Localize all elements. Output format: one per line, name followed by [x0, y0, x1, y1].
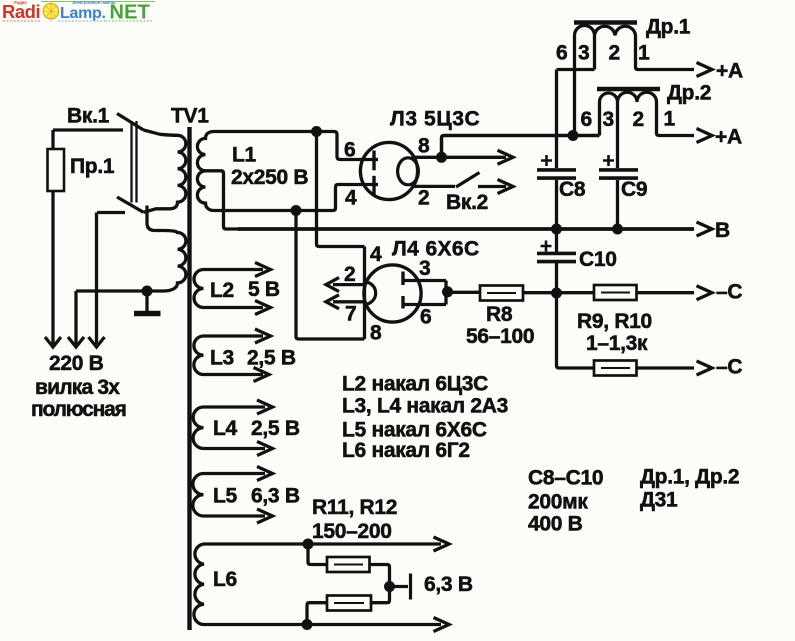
choke Др.2 core bar — [597, 87, 660, 91]
svg-text:–С: –С — [716, 281, 742, 304]
wire tube Л3 pin 8 — [412, 156, 438, 159]
tube Л3 cathode circle — [398, 158, 419, 185]
svg-text:Л3 5Ц3С: Л3 5Ц3С — [390, 108, 480, 131]
heater arrow upper — [326, 278, 363, 292]
wire Л4 output to R8 — [448, 291, 481, 294]
transformer TV1 core — [187, 127, 191, 630]
switch Вк.1 pole 2 blade — [117, 197, 144, 212]
capacitor C10 plus sign — [541, 241, 552, 252]
wire center tap to terminal — [390, 585, 409, 588]
wire node down to R10 — [557, 293, 595, 368]
wire R10 to arrow — [637, 366, 695, 369]
switch Вк.1 pole 2 wire — [97, 211, 125, 214]
svg-text:L6 накал 6Г2: L6 накал 6Г2 — [342, 439, 470, 462]
svg-text:+А: +А — [715, 126, 742, 149]
svg-text:L1: L1 — [232, 144, 257, 167]
wire L1 center tap to B bus — [206, 171, 241, 229]
tube Л4 cathode circle — [365, 282, 376, 304]
svg-text:L2 накал 6Ц3С: L2 накал 6Ц3С — [342, 373, 488, 396]
capacitor C10 bottom lead — [555, 263, 558, 293]
svg-text:Др.2: Др.2 — [667, 82, 711, 105]
svg-text:6,3 В: 6,3 В — [251, 485, 300, 508]
wire plug pin 1 — [51, 191, 54, 344]
winding L6 top arrow — [434, 537, 450, 551]
svg-text:+А: +А — [716, 60, 743, 83]
plug pin 1 arrow — [45, 337, 61, 347]
winding L4 — [193, 407, 265, 449]
switch Вк.2 blade — [456, 173, 480, 188]
svg-text:L2: L2 — [210, 279, 234, 302]
tube Л3 anode bar pin 4 — [372, 176, 375, 195]
node on L1 top lead — [311, 126, 322, 137]
wire B bus — [238, 227, 694, 231]
svg-text:TV1: TV1 — [171, 105, 209, 128]
switch Вк.1 linkage — [132, 121, 137, 203]
capacitor C10 plates — [537, 253, 576, 261]
plug pin 3 arrow — [89, 337, 105, 347]
node Л4 output — [442, 286, 453, 297]
capacitor C8 plates — [537, 170, 576, 178]
svg-text:6: 6 — [556, 42, 567, 65]
capacitor C9 plates — [599, 170, 638, 178]
svg-text:8: 8 — [418, 135, 430, 158]
switch Вк.1 pole 1 blade — [117, 114, 144, 131]
capacitor C8 plus sign — [541, 155, 552, 166]
svg-text:6,3 В: 6,3 В — [424, 573, 473, 596]
svg-text:3: 3 — [578, 42, 589, 65]
svg-text:1: 1 — [664, 108, 676, 131]
tube Л4 left tangent lead — [363, 247, 366, 340]
svg-text:Вк.2: Вк.2 — [446, 191, 488, 214]
svg-text:3: 3 — [603, 108, 614, 131]
wire R9 to arrow — [637, 291, 695, 294]
node primary-lower / ground junction — [142, 286, 153, 297]
svg-text:С10: С10 — [579, 248, 617, 271]
wire R8 to node — [523, 291, 557, 294]
terminal bar 6,3 В — [409, 574, 412, 600]
svg-text:6: 6 — [581, 108, 592, 131]
heater arrow lower — [326, 295, 363, 309]
site logo RadioLamp.NET — [2, 0, 155, 24]
secondary winding L1 — [197, 132, 334, 211]
svg-text:2x250 В: 2x250 В — [231, 166, 308, 189]
resistor R9 — [594, 285, 637, 300]
node R11/R12 center tap — [384, 581, 395, 592]
logo tube circle (o) — [43, 4, 58, 19]
wire node to R9 — [557, 291, 595, 294]
svg-text:6: 6 — [420, 306, 431, 329]
svg-text:400 В: 400 В — [528, 513, 583, 536]
capacitor C9 plus sign — [603, 155, 614, 166]
svg-text:Lamp.: Lamp. — [60, 5, 106, 22]
svg-text:2,5 В: 2,5 В — [247, 347, 296, 370]
logo top green line — [41, 1, 155, 3]
fuse Пр.1 lead top — [51, 130, 54, 149]
winding L2 — [194, 270, 263, 308]
wire plug pin 3 — [95, 213, 98, 345]
svg-text:5 В: 5 В — [248, 278, 280, 301]
svg-text:2: 2 — [633, 108, 644, 131]
winding L2 arrows — [255, 263, 271, 315]
node C10 / R8 / R9 junction — [551, 288, 562, 299]
svg-text:R8: R8 — [486, 303, 513, 326]
svg-text:4: 4 — [345, 187, 357, 210]
svg-text:2: 2 — [344, 263, 355, 286]
node L6 top / R11 — [303, 539, 314, 550]
svg-text:8: 8 — [370, 322, 382, 345]
svg-text:NET: NET — [110, 2, 151, 24]
winding L3 — [194, 336, 263, 375]
transformer primary winding lower — [76, 206, 186, 292]
wire R11 to center node — [370, 565, 390, 587]
svg-text:150–200: 150–200 — [312, 520, 392, 543]
wire Вк.2 to arrow — [478, 185, 506, 188]
node on L1 bottom lead — [291, 205, 302, 216]
svg-text:Д31: Д31 — [640, 489, 678, 512]
winding L6 bottom arrow — [434, 618, 450, 632]
winding L3 arrows — [254, 329, 271, 382]
winding L5 — [193, 474, 265, 517]
wire C8 branch down to B bus — [555, 70, 558, 169]
svg-text:7: 7 — [345, 303, 356, 326]
wire L1 bottom lead corner to tube pin 4 — [333, 185, 378, 211]
wire plug pin 2 — [74, 291, 77, 344]
resistor R11 — [327, 557, 370, 572]
svg-text:1: 1 — [638, 42, 650, 65]
svg-text:вилка 3х: вилка 3х — [35, 376, 120, 399]
choke Др.2 winding with pin 6 lead — [600, 92, 695, 135]
svg-text:2: 2 — [418, 187, 429, 210]
node C8 on B bus — [551, 224, 562, 235]
svg-text:6: 6 — [344, 139, 355, 162]
svg-text:3: 3 — [419, 257, 430, 280]
svg-text:1–1,3к: 1–1,3к — [586, 332, 648, 355]
winding L6 — [194, 544, 441, 625]
tube Л4 envelope — [364, 265, 421, 322]
wire L6 bottom to R12 — [307, 603, 327, 625]
svg-text:2,5 В: 2,5 В — [251, 417, 300, 440]
svg-text:200мк: 200мк — [528, 491, 588, 514]
svg-text:220 В: 220 В — [49, 352, 104, 375]
choke Др.1 pin 3 lead — [593, 36, 596, 70]
svg-text:В: В — [715, 219, 730, 242]
ground bar — [134, 311, 161, 317]
svg-text:Пр.1: Пр.1 — [70, 155, 115, 178]
tube Л3 envelope — [360, 142, 417, 199]
svg-text:L5: L5 — [213, 485, 238, 508]
wire L6 top to R11 — [308, 544, 327, 565]
svg-text:L3, L4 накал 2А3: L3, L4 накал 2А3 — [342, 395, 508, 418]
wire pin 8 junction up to filter node — [442, 136, 600, 158]
choke Др.2 pin 3 lead to C9 — [616, 102, 619, 168]
svg-text:Др.1, Др.2: Др.1, Др.2 — [640, 466, 739, 489]
arrow anode supply 1 — [498, 150, 514, 164]
node pin 8 junction — [436, 152, 447, 163]
capacitor C9 bottom lead — [616, 180, 619, 229]
wire R12 to center node — [371, 587, 390, 603]
svg-text:R11, R12: R11, R12 — [312, 496, 397, 519]
arrow anode supply 2 — [498, 180, 514, 194]
wire tube Л3 pin 2 — [412, 185, 456, 188]
wire tube Л4 pin 3 — [403, 279, 446, 282]
logo underline green — [105, 20, 152, 22]
svg-text:С8–С10: С8–С10 — [528, 467, 603, 490]
node C9 on B bus — [612, 224, 623, 235]
node L6 bottom / R12 — [302, 619, 313, 630]
plug pin 2 arrow — [68, 337, 84, 347]
winding L5 arrows — [257, 467, 273, 524]
svg-text:4: 4 — [370, 243, 382, 266]
svg-text:Др.1: Др.1 — [646, 16, 691, 39]
ground stub — [145, 291, 148, 311]
svg-text:L4: L4 — [213, 417, 238, 440]
choke Др.1 winding with pin 6 lead — [575, 26, 695, 136]
svg-text:полюсная: полюсная — [31, 398, 126, 421]
wire from L1 top lead down to Л4 pin 4 — [317, 132, 365, 247]
wire L1 top lead corner to tube pin 6 — [334, 132, 378, 160]
resistor R10 — [594, 361, 637, 376]
arrow +A output 2 — [697, 129, 713, 143]
svg-text:R9, R10: R9, R10 — [577, 310, 652, 333]
arrow -C output 2 — [697, 361, 713, 375]
tube Л4 anode bars — [401, 272, 404, 309]
logo underline blue — [58, 20, 105, 22]
switch Вк.1 pole 1 wire — [53, 128, 123, 131]
transformer primary winding upper — [144, 130, 186, 212]
wire joining pins 3 and 6 — [444, 281, 447, 305]
arrow +A output 1 — [697, 63, 713, 77]
svg-text:Вк.1: Вк.1 — [67, 105, 110, 128]
svg-text:56–100: 56–100 — [466, 325, 534, 348]
svg-text:2: 2 — [609, 42, 620, 65]
wire Др.1 pin 3 to C8 branch — [557, 68, 595, 71]
winding L4 arrows — [257, 400, 273, 456]
wire pin 8 to arrow — [446, 156, 506, 159]
wire tube Л4 pin 6 — [403, 303, 446, 306]
node rectifier output / choke junction — [568, 130, 579, 141]
logo underline red — [3, 20, 40, 22]
resistor R12 — [327, 596, 371, 611]
fuse Пр.1 body — [48, 149, 65, 191]
wire from L1 bottom lead down to Л4 pin 8 — [296, 211, 365, 340]
capacitor C10 top lead — [555, 229, 558, 252]
choke Др.1 core bar — [574, 20, 637, 24]
svg-text:Л4 6Х6С: Л4 6Х6С — [392, 238, 480, 261]
arrow -C output 1 — [697, 286, 713, 300]
svg-text:–С: –С — [716, 356, 742, 379]
tube Л3 anode bar pin 6 — [372, 151, 375, 171]
svg-text:L6: L6 — [213, 568, 237, 591]
resistor R8 — [480, 286, 523, 301]
svg-text:С9: С9 — [621, 178, 647, 201]
B bus arrow — [697, 222, 713, 236]
svg-text:Radi: Radi — [2, 1, 40, 22]
svg-text:L3: L3 — [210, 347, 234, 370]
svg-text:С8: С8 — [559, 178, 586, 201]
capacitor C8 bottom lead — [555, 180, 558, 229]
